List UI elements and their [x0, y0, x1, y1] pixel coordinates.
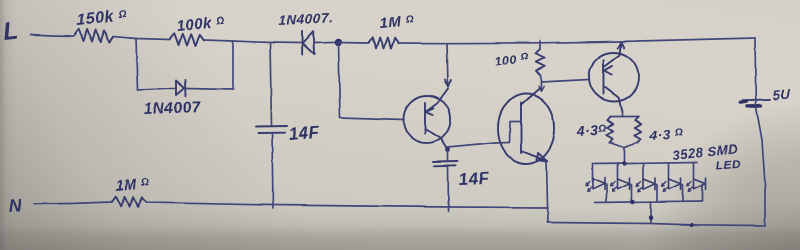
Q3 collector arrowhead at rail [618, 42, 625, 48]
wire down to LED top bus [623, 147, 625, 164]
svg-text:1M Ω: 1M Ω [115, 176, 150, 195]
LED D5 3528 SMD [642, 163, 644, 179]
wire node B to node C [233, 41, 270, 43]
capacitor C1 top plate [256, 126, 287, 129]
Q3 emitter arrow inside [605, 66, 613, 75]
wire Q3 emitter to resistor pair [621, 112, 623, 117]
wire C1 down to N rail [272, 134, 273, 209]
wire C2 down to N rail [447, 167, 450, 212]
wire node C down to C1 [270, 43, 272, 126]
wire battery positive lead [754, 38, 757, 100]
wire node D down [339, 43, 341, 118]
resistor R5 100ohm zigzag [536, 49, 545, 75]
bottom rail wire [548, 223, 765, 226]
Q1 emitter arrowhead [445, 80, 452, 87]
LED D4 3528 SMD [617, 164, 619, 180]
LED top bus wire [594, 163, 697, 165]
wire LED bottom bus down [650, 202, 652, 224]
wire D1 cathode lead [186, 89, 234, 90]
battery BT1 positive plate [743, 98, 771, 101]
wire node J down to bottom rail [547, 205, 550, 223]
resistor R2 100k zigzag [170, 33, 204, 45]
wire node A to R2 [136, 39, 170, 40]
wire R2 to node B [204, 40, 233, 41]
svg-text:L: L [2, 16, 21, 45]
svg-text:4·3Ω: 4·3Ω [575, 121, 607, 139]
Q3 emitter lead [604, 87, 622, 113]
wire top rail to R5 [539, 41, 541, 49]
wire R5 to node H [540, 75, 543, 82]
resistor R1 150k zigzag [75, 29, 113, 43]
capacitor C1 bottom plate [258, 132, 285, 134]
svg-text:1N4007: 1N4007 [144, 99, 203, 118]
resistor R4 1M zigzag [112, 197, 146, 208]
wire node G to Q2 base [448, 143, 495, 148]
svg-text:LED: LED [715, 157, 741, 173]
LED bottom bus wire [595, 201, 702, 203]
wire node E to node F [447, 42, 620, 44]
transistor Q2 circle [498, 94, 554, 164]
wire right side of D1 loop [232, 41, 234, 90]
svg-text:1N4007.: 1N4007. [278, 10, 333, 28]
Q1 emitter lead inside [426, 89, 449, 113]
wire left side of D1 loop [136, 39, 138, 90]
wire R1 to node A [113, 37, 136, 39]
svg-text:4·3 Ω: 4·3 Ω [648, 126, 683, 143]
Q2 emitter lead [521, 151, 547, 161]
resistor R7 4.3ohm zigzag [635, 117, 641, 143]
junction dot LED bottom bus [631, 200, 635, 204]
svg-text:5U: 5U [772, 86, 792, 103]
Q2 base bar [520, 103, 522, 153]
Q2 collector arrowhead [538, 86, 544, 92]
wire resistor pair top bar [610, 116, 639, 118]
svg-text:150k Ω: 150k Ω [76, 7, 128, 29]
Q1 collector lead [425, 129, 448, 151]
transistor Q3 circle [589, 53, 639, 102]
LED D7 3528 SMD [693, 163, 695, 179]
junction dot node G [446, 148, 451, 153]
wire node C to diode D2 [270, 42, 301, 45]
junction dot node D [335, 39, 343, 47]
Q1 emitter arrow inside [426, 109, 434, 116]
Q3 base bar [603, 60, 605, 94]
wire node E down to Q1 emitter [447, 43, 448, 86]
wire Q2 emitter down [547, 161, 548, 206]
wire to Q1 base [340, 118, 404, 120]
svg-text:100k Ω: 100k Ω [176, 14, 226, 35]
capacitor C2 top plate [433, 160, 458, 163]
wire resistor pair bottom join [610, 142, 638, 147]
Q2 emitter arrowhead [537, 153, 548, 162]
wire node D to R3 [338, 42, 368, 45]
wire battery negative lead [756, 107, 765, 226]
wire D1 anode lead [138, 88, 177, 90]
Q2 collector lead [521, 88, 541, 105]
wire battery center stub [755, 100, 757, 106]
wire node H down to Q2 collector [540, 82, 542, 91]
LED D3 3528 SMD [592, 164, 594, 179]
junction tick bottom rail [690, 223, 694, 227]
svg-text:1M Ω: 1M Ω [379, 12, 415, 32]
resistor R3 1M zigzag [369, 37, 399, 48]
junction dot bottom drop [649, 216, 653, 220]
wire node H to Q3 base [541, 80, 589, 83]
svg-text:N: N [8, 195, 23, 216]
terminal L wire lead [31, 35, 74, 37]
Q1 base bar [424, 103, 426, 134]
wire R3 to node E [399, 42, 447, 44]
wire node F to battery corner [620, 38, 755, 42]
battery BT1 negative plate [748, 104, 762, 108]
wire N rail to node J [146, 203, 548, 208]
terminal N wire lead [34, 202, 112, 204]
wire node G to C2 [447, 150, 449, 160]
battery BT1 plate hook [741, 101, 747, 102]
svg-text:100 Ω: 100 Ω [494, 51, 530, 69]
Q3 collector lead [604, 43, 622, 68]
diode D2 1N4007 triangle [303, 32, 315, 55]
svg-text:14F: 14F [288, 123, 320, 144]
diode D1 1N4007 triangle [176, 81, 184, 96]
svg-text:14F: 14F [458, 169, 490, 189]
wire D2 to node D [314, 41, 338, 44]
Q2 base step [495, 122, 521, 144]
capacitor C2 bottom plate [434, 164, 456, 167]
diode D1 cathode bar [184, 80, 187, 96]
diode D2 cathode bar [301, 32, 303, 56]
LED D6 3528 SMD [668, 163, 670, 179]
junction dot LED feed [622, 161, 626, 165]
resistor R6 4.3ohm zigzag [607, 117, 613, 143]
transistor Q1 circle [404, 96, 451, 143]
